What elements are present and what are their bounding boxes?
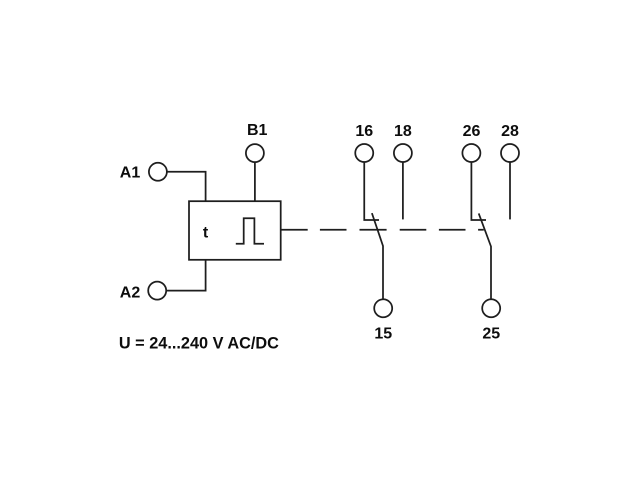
timer box U1 [189, 201, 281, 260]
terminal A1 [149, 163, 167, 181]
svg-text:A2: A2 [120, 285, 141, 302]
pulse symbol [236, 218, 264, 244]
svg-text:25: 25 [482, 325, 500, 342]
wire A2 to box [166, 260, 206, 291]
svg-text:15: 15 [374, 325, 392, 342]
wire 28 fixed contact [509, 162, 511, 220]
terminal 28 [501, 144, 519, 162]
svg-text:28: 28 [501, 123, 519, 140]
contact arm 15-16 [372, 213, 383, 299]
svg-text:18: 18 [394, 123, 412, 140]
wire 18 fixed contact [402, 162, 404, 220]
terminal B1 [246, 144, 264, 162]
terminal 16 [355, 144, 373, 162]
terminal 18 [394, 144, 412, 162]
wire B1 to box [254, 162, 256, 201]
terminal 25 [482, 299, 500, 317]
svg-text:A1: A1 [120, 165, 141, 182]
svg-text:16: 16 [355, 123, 373, 140]
wire A1 to box [167, 172, 206, 201]
svg-text:B1: B1 [247, 122, 268, 139]
svg-text:26: 26 [463, 123, 481, 140]
dashed control line [320, 229, 484, 231]
terminal 15 [374, 299, 392, 317]
wire box output [281, 229, 308, 231]
svg-text:t: t [203, 225, 209, 242]
wire 16 fixed contact [364, 162, 379, 220]
terminal 26 [462, 144, 480, 162]
svg-text:U = 24...240 V AC/DC: U = 24...240 V AC/DC [119, 335, 279, 353]
terminal A2 [148, 282, 166, 300]
contact arm 25-26 [479, 213, 491, 299]
wire 26 fixed contact [471, 162, 486, 220]
